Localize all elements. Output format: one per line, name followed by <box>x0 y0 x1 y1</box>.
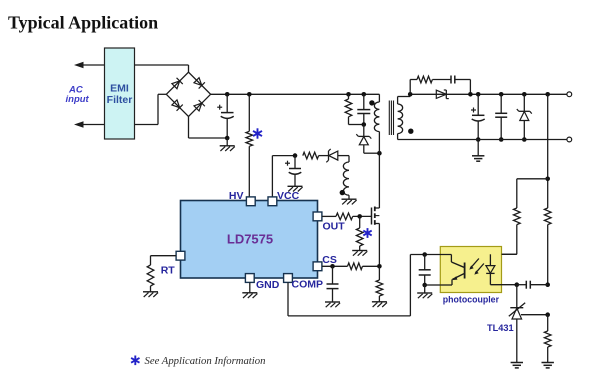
node outcap1 top <box>476 92 481 97</box>
compensation capacitor <box>517 281 548 289</box>
pin HV <box>246 197 255 206</box>
svg-text:TL431: TL431 <box>487 323 514 333</box>
output snubber resistor <box>410 76 451 94</box>
svg-text:RT: RT <box>161 264 176 276</box>
asterisk startup <box>253 128 262 138</box>
pin GND <box>245 274 254 283</box>
output top rail <box>410 93 567 95</box>
node bus-cap <box>225 92 230 97</box>
node opto cap bottom <box>422 283 427 288</box>
photocoupler light arrows <box>469 259 484 275</box>
node zener bottom <box>522 137 527 142</box>
RT resistor <box>147 265 154 292</box>
output terminal plus <box>567 92 572 97</box>
label photocoupler <box>443 295 500 305</box>
feedback resistor R upper-right <box>544 208 551 285</box>
pin VCC <box>268 197 277 206</box>
output rectifier diode <box>436 90 449 99</box>
footer star <box>131 356 139 366</box>
primary phase dot <box>369 100 374 105</box>
CS resistor <box>348 263 380 270</box>
gate pulldown resistor <box>356 216 363 250</box>
svg-text:photocoupler: photocoupler <box>443 295 500 305</box>
svg-text:VCC: VCC <box>277 190 300 202</box>
ground aux <box>342 199 357 204</box>
wire EMI bottom to bridge <box>135 94 167 124</box>
sense resistor <box>376 266 383 302</box>
feedback wire <box>547 94 549 208</box>
svg-text:Filter: Filter <box>107 94 133 106</box>
label OUT <box>323 220 346 232</box>
svg-text:input: input <box>66 94 90 105</box>
title <box>8 13 158 33</box>
bridge diode D3 (left-bottom edge) <box>171 99 182 110</box>
AC input arrow top <box>74 62 105 68</box>
photocoupler anode wire <box>502 253 517 255</box>
label GND <box>256 279 280 291</box>
photocoupler box <box>440 247 501 293</box>
VCC resistor <box>303 152 319 159</box>
RT wire <box>151 256 177 265</box>
ground VCC cap <box>288 186 303 191</box>
photocoupler emitter wire <box>425 284 441 286</box>
node zener top <box>522 92 527 97</box>
node ref <box>545 312 550 317</box>
VCC capacitor <box>285 156 301 187</box>
photocoupler LED <box>486 254 517 284</box>
label AC input <box>66 85 90 106</box>
IC LD7575 body <box>181 201 318 279</box>
bridge diode D1 (left-top edge) <box>171 78 182 89</box>
svg-text:See Application Information: See Application Information <box>145 355 266 367</box>
clamp diode <box>356 125 379 154</box>
pin OUT <box>313 212 322 221</box>
feedback lower resistor <box>544 315 551 363</box>
secondary phase dot <box>408 129 413 134</box>
bulk capacitor <box>217 94 234 138</box>
output terminal minus <box>567 137 572 142</box>
svg-text:OUT: OUT <box>323 220 346 232</box>
node CS sense <box>377 264 382 269</box>
output capacitor C2 <box>495 94 507 139</box>
ground opto <box>417 285 432 298</box>
wire HV bus <box>211 93 380 95</box>
pin CS <box>313 262 322 271</box>
output capacitor C1 <box>471 94 485 139</box>
opto filter capacitor <box>419 255 431 286</box>
ground RT <box>143 292 158 297</box>
label COMP <box>292 279 324 291</box>
ground GND pin <box>242 293 257 298</box>
TL431 ref wire <box>521 314 548 316</box>
gate resistor <box>336 213 353 220</box>
node outcap2 bottom <box>499 137 504 142</box>
startup resistor <box>246 94 253 196</box>
node VCC <box>293 153 298 158</box>
asterisk gate <box>363 228 371 238</box>
node sec top <box>408 92 413 97</box>
node tl431 top <box>515 282 520 287</box>
label CS <box>322 254 337 266</box>
VCC wire <box>272 156 295 197</box>
photocoupler collector wire <box>410 254 451 256</box>
pin COMP <box>284 274 293 283</box>
ground TL431 <box>511 363 523 368</box>
feedback resistor R upper-left <box>490 208 520 254</box>
node opto cap top <box>422 252 427 257</box>
wire gate node <box>353 215 372 217</box>
node CS cap <box>330 264 335 269</box>
COMP wire <box>288 255 410 316</box>
node feedback tap <box>545 92 550 97</box>
label VCC <box>277 190 300 202</box>
node feedback branch <box>545 177 550 182</box>
svg-text:COMP: COMP <box>292 279 324 291</box>
clamp capacitor <box>357 94 370 124</box>
TL431 shunt regulator <box>509 285 525 363</box>
aux phase dot <box>340 190 345 195</box>
node gate <box>357 214 362 219</box>
node bridge minus <box>225 136 230 141</box>
svg-text:Typical Application: Typical Application <box>8 13 158 33</box>
node snubber right <box>468 92 473 97</box>
transformer core <box>389 101 393 136</box>
label RT <box>161 264 176 276</box>
svg-text:EMI: EMI <box>110 83 129 95</box>
feedback branch wire <box>517 179 548 208</box>
transformer secondary winding <box>398 94 411 139</box>
node bus-snubC <box>362 92 367 97</box>
label HV <box>229 190 244 202</box>
clamp resistor <box>345 94 364 124</box>
aux winding <box>343 156 349 200</box>
ground gate resistor <box>352 251 367 256</box>
svg-text:CS: CS <box>322 254 337 266</box>
node bus-startup <box>247 92 252 97</box>
pin RT <box>176 251 185 260</box>
node outcap2 top <box>499 92 504 97</box>
label TL431 <box>487 323 514 333</box>
svg-text:HV: HV <box>229 190 244 202</box>
CS filter capacitor <box>327 266 339 302</box>
node bus-snubR <box>346 92 351 97</box>
photocoupler transistor <box>440 255 464 286</box>
GND wire <box>249 282 251 292</box>
ground CS cap <box>325 302 340 307</box>
bridge rectifier frame <box>166 72 210 116</box>
bridge diode D4 (bottom-right edge) <box>193 100 204 111</box>
node clamp RC <box>362 122 367 127</box>
output bottom rail <box>398 139 567 141</box>
ground bridge <box>220 138 235 151</box>
bridge diode D2 (top-right edge) <box>193 77 204 88</box>
footer note <box>145 355 266 367</box>
node comp cap right <box>545 282 550 287</box>
wire EMI top to bridge <box>135 65 189 72</box>
svg-text:LD7575: LD7575 <box>227 232 273 247</box>
EMI filter block <box>105 48 135 139</box>
transformer primary winding <box>374 94 379 203</box>
gate wire <box>322 215 336 217</box>
wire bridge minus rail <box>189 117 228 139</box>
node outcap1 bottom <box>476 137 481 142</box>
svg-text:GND: GND <box>256 279 280 291</box>
node clamp-drain <box>377 151 382 156</box>
mosfet Q1 <box>372 204 380 267</box>
ground secondary <box>472 140 484 162</box>
output snubber capacitor <box>451 76 470 95</box>
CS wire <box>322 265 348 267</box>
AC input arrow bottom <box>74 121 105 127</box>
output zener diode <box>517 94 532 139</box>
aux diode <box>319 149 349 162</box>
ground divider <box>542 363 554 368</box>
ground sense resistor <box>372 302 387 307</box>
